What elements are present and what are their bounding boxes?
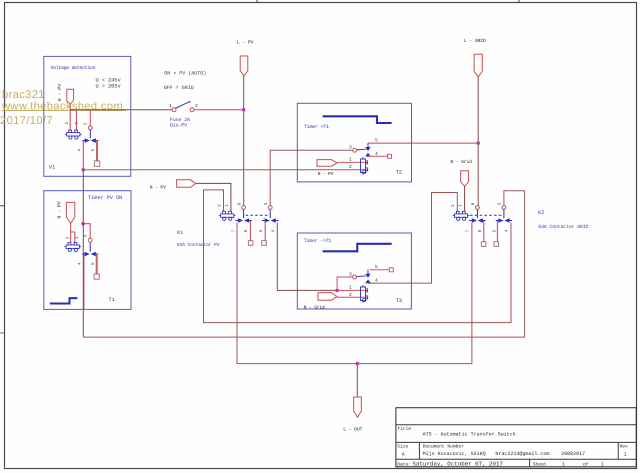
svg-text:3: 3 (349, 271, 352, 277)
watermark (0, 89, 126, 127)
svg-text:Title: Title (397, 426, 411, 432)
wire switch line from V1 (70, 109, 172, 111)
connector L-OUT (354, 397, 362, 417)
svg-text:20082017: 20082017 (561, 451, 585, 457)
svg-text:brac321: brac321 (2, 89, 45, 101)
node junction L-OUT (356, 362, 360, 366)
svg-text:63A Contactor GRID: 63A Contactor GRID (538, 224, 588, 230)
wire T3 junction riser to pin3 (337, 277, 353, 290)
title block frame (396, 408, 636, 467)
svg-text:N - PV: N - PV (318, 172, 334, 177)
connector N-Grid in T3 (318, 293, 337, 301)
mechanical link K2 (470, 214, 502, 216)
svg-text:U < 245v: U < 245v (96, 77, 122, 83)
contact T2 (353, 143, 371, 156)
svg-text:5: 5 (375, 137, 378, 143)
connector N-PV in T2 (317, 160, 337, 167)
svg-text:T2: T2 (396, 170, 402, 176)
mechanical link K1 (246, 214, 269, 216)
wire T3 pin5 (370, 269, 389, 271)
wire V1 coil pin1 riser (75, 110, 77, 131)
wire L-PV riser (243, 76, 245, 206)
terminal square K1-A (248, 241, 253, 246)
svg-text:K2: K2 (538, 210, 544, 216)
svg-text:2017/10/7: 2017/10/7 (0, 115, 53, 127)
svg-text:V1: V1 (49, 165, 55, 171)
contact in V1 (82, 126, 98, 143)
relay coil K2 (453, 211, 470, 220)
wire V1 pentagon stem (69, 105, 71, 131)
wire N-PV stub to K1 coil (196, 183, 231, 211)
wire T2 pin4 (368, 155, 388, 157)
wire K2 coil pin2 riser (368, 193, 457, 284)
contact in T1 (82, 238, 98, 256)
svg-text:Saturday, October 07, 2017: Saturday, October 07, 2017 (413, 460, 504, 467)
svg-text:Size: Size (397, 443, 408, 449)
wire K1-B left arm (264, 221, 266, 241)
waveform T2 step-down (323, 116, 392, 123)
module T2 Timer >T1 box (297, 103, 411, 182)
node junction T3 pin1 (335, 289, 339, 293)
relay coil T2 (361, 157, 368, 175)
svg-text:N - Grid: N - Grid (451, 159, 473, 165)
svg-text:1: 1 (169, 103, 172, 109)
wire T3 pin1 (337, 289, 367, 291)
connector N-PV in T1 (66, 202, 74, 223)
terminal square K1-B (262, 241, 267, 246)
svg-text:of: of (583, 461, 589, 467)
contact T3 (353, 270, 371, 283)
svg-text:Rev: Rev (620, 443, 629, 449)
wire T1 pin3 tap (83, 224, 90, 239)
terminal square T2 pin4 (388, 154, 392, 158)
svg-text:Date:: Date: (397, 461, 411, 467)
terminal square K2-A (481, 242, 486, 247)
contact K1-B (262, 206, 278, 223)
wire L-OUT drop (356, 364, 358, 397)
svg-text:4: 4 (375, 278, 378, 284)
relay coil in V1 (65, 130, 82, 139)
svg-text:1: 1 (349, 285, 352, 291)
switch Fuse 2A Dis.PV (172, 101, 194, 112)
svg-text:1: 1 (349, 157, 352, 163)
svg-text:1: 1 (601, 461, 604, 467)
svg-text:Timer >T1: Timer >T1 (304, 124, 329, 130)
relay coil T3 (361, 285, 368, 303)
node junction L-GRID T2 (476, 141, 480, 145)
svg-text:Timer PV ON: Timer PV ON (88, 195, 122, 201)
wire T1 contact left arm (83, 254, 85, 309)
node junction T1 tap (81, 222, 85, 226)
connector N-Grid K2 (461, 171, 469, 187)
wire V1 contact left arm (82, 141, 84, 170)
wire K2-A right arm (483, 221, 485, 242)
svg-text:K1: K1 (177, 230, 183, 236)
node junction L-PV fuse (242, 108, 246, 112)
wire neutral bus to K2 pin3 (83, 191, 524, 337)
module V1 Voltage detection box (44, 56, 131, 176)
wire T2 pin1 (337, 161, 368, 163)
relay coil in T1 (64, 242, 81, 251)
wire K1 pin4 to T3 pin1 (277, 223, 336, 291)
svg-text:N - PV: N - PV (150, 185, 166, 191)
svg-text:ON = PV (AUTO): ON = PV (AUTO) (164, 71, 206, 77)
svg-text:N - Grid: N - Grid (304, 304, 325, 310)
wire N-Grid stub (464, 186, 466, 211)
svg-text:2: 2 (195, 103, 198, 109)
module T1 Timer PV ON box (44, 191, 131, 310)
wire K1 pin3 riser to T2 pin3 (270, 150, 353, 205)
wire T1 contact right arm (96, 254, 98, 274)
relay coil K1 (219, 211, 236, 220)
wire T2 pin5 to L-GRID (368, 142, 478, 144)
svg-text:1: 1 (562, 461, 565, 467)
wire T1 pentagon stem (71, 223, 75, 242)
connector N-PV left (177, 180, 196, 188)
terminal square K2-B (494, 242, 499, 247)
wire K1-A right arm (249, 221, 251, 241)
svg-text:T1: T1 (109, 297, 115, 303)
svg-text:L - OUT: L - OUT (343, 427, 362, 433)
svg-text:L - PV: L - PV (237, 40, 254, 46)
svg-text:brac321d@gmail.com: brac321d@gmail.com (495, 451, 549, 457)
svg-text:N - PV: N - PV (57, 84, 63, 101)
wire output bus K1 to K2 (237, 223, 472, 364)
svg-text:N - PV: N - PV (56, 201, 62, 218)
terminal square T3 pin5 (389, 268, 393, 272)
svg-text:L - GRID: L - GRID (464, 38, 486, 44)
wire switch to L-PV junction (194, 109, 244, 111)
node junction V1 neutral (82, 168, 86, 172)
wire K1 coil pin2 to bus to K2 pin4 (204, 190, 512, 323)
contact K1-A (235, 206, 251, 223)
svg-text:Timer ->T1: Timer ->T1 (304, 238, 332, 244)
svg-text:Voltage detection: Voltage detection (51, 65, 96, 71)
module T3 Timer ->T1 box (297, 233, 411, 309)
wire T3 pin2 (337, 296, 368, 298)
terminal square T1 (94, 274, 99, 279)
waveform T3 step-up (323, 244, 392, 252)
connector L-GRID (474, 54, 482, 77)
svg-text:63A Contactor PV: 63A Contactor PV (177, 242, 220, 248)
svg-text:A: A (402, 451, 405, 457)
svg-text:2: 2 (349, 164, 352, 170)
wire L-GRID riser (477, 77, 479, 206)
svg-text:ATS - Automatic Transfer Switc: ATS - Automatic Transfer Switch (423, 432, 516, 438)
waveform T1 step-up (50, 298, 78, 303)
wire V1 contact riser (89, 110, 91, 126)
svg-text:T3: T3 (396, 298, 402, 304)
svg-text:Dis.PV: Dis.PV (170, 123, 187, 129)
svg-text:Mijo Kovacevic, S51KQ: Mijo Kovacevic, S51KQ (423, 451, 486, 457)
svg-text:OFF = GRID: OFF = GRID (164, 85, 194, 91)
svg-text:Sheet: Sheet (533, 461, 547, 467)
contact K2-B (496, 206, 512, 223)
terminal square V1 (94, 161, 99, 166)
connector L-PV (240, 56, 248, 76)
wire V1 contact right arm (96, 141, 98, 162)
svg-text:3: 3 (349, 145, 352, 151)
wire T2 pin2 long line (83, 169, 368, 171)
svg-text:Document Number: Document Number (423, 443, 465, 449)
wire K2-B left arm (496, 221, 498, 242)
connector N-PV in V1 (67, 89, 74, 104)
contact K2-A (469, 206, 485, 223)
svg-text:1: 1 (624, 451, 627, 457)
wire neutral V1 riser (82, 170, 84, 337)
svg-text:5: 5 (375, 264, 378, 270)
svg-text:U > 205v: U > 205v (96, 84, 122, 90)
